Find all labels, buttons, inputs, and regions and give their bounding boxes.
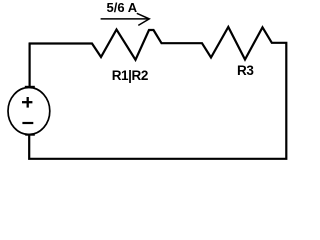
svg-text:R1|R2: R1|R2 bbox=[112, 68, 148, 83]
svg-text:R3: R3 bbox=[237, 63, 254, 78]
svg-text:5/6 A: 5/6 A bbox=[107, 0, 138, 15]
